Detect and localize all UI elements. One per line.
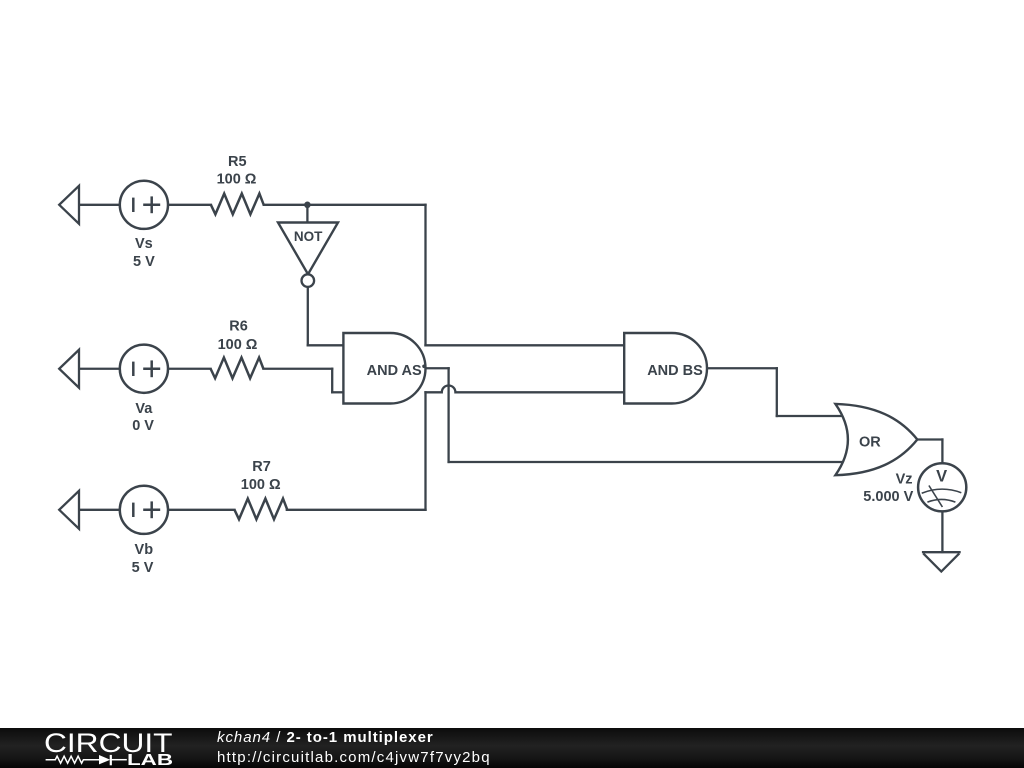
svg-text:100 Ω: 100 Ω [241, 477, 281, 493]
input flag Vb [59, 491, 79, 529]
svg-text:NOT: NOT [294, 229, 323, 244]
wire Vb: antenna to source [79, 509, 120, 511]
wire jog down [331, 369, 333, 393]
wire jog to AND AS bottom input [332, 391, 344, 393]
voltage source Va [120, 345, 168, 393]
wire AND AS output [426, 367, 449, 369]
svg-text:kchan4 / 2- to-1 multiplexer: kchan4 / 2- to-1 multiplexer [217, 729, 434, 746]
wire R6 to jog [263, 368, 332, 370]
svg-text:Vz: Vz [896, 471, 913, 487]
wire NOT output bubble down [307, 287, 309, 346]
svg-text:5.000 V: 5.000 V [863, 489, 913, 505]
svg-text:R7: R7 [252, 459, 271, 475]
wire voltmeter to ground [941, 511, 943, 552]
wire Vb up to AND BS input level [424, 392, 426, 510]
wire Va: source to R6 [168, 368, 211, 370]
wire AND BS output to OR top input [777, 415, 843, 417]
ground [922, 552, 961, 571]
wire Vb to AND BS bottom input with hop [426, 386, 626, 393]
voltage source Vb [120, 486, 168, 534]
voltage source Vs [120, 181, 168, 229]
wire Vs: source to R5 [168, 204, 211, 206]
svg-text:Vb: Vb [135, 542, 154, 558]
svg-text:5 V: 5 V [133, 254, 155, 270]
wire Vs: antenna to source [79, 204, 120, 206]
OR gate [835, 404, 917, 475]
wire vertical S down to AND BS input level [424, 205, 426, 345]
svg-text:V: V [936, 468, 947, 486]
svg-text:AND AS: AND AS [367, 363, 422, 379]
wire R7 to corner [287, 509, 426, 511]
wire AND BS output [707, 367, 777, 369]
resistor R5 [211, 194, 264, 215]
footer bar [0, 728, 1024, 768]
svg-text:100 Ω: 100 Ω [217, 172, 257, 188]
svg-text:5 V: 5 V [132, 560, 154, 576]
svg-text:http://circuitlab.com/c4jvw7f7: http://circuitlab.com/c4jvw7f7vy2bq [217, 749, 491, 766]
wire Va: antenna to source [79, 368, 120, 370]
voltmeter Vz [918, 463, 966, 511]
wire Vb: source to R7 [168, 509, 235, 511]
resistor R6 [211, 358, 264, 379]
NOT gate [278, 223, 338, 287]
input flag Vs [59, 186, 79, 224]
wire AND AS output to OR bottom input [449, 461, 843, 463]
input flag Va [59, 350, 79, 388]
wire OR output down to voltmeter [941, 440, 943, 465]
svg-text:100 Ω: 100 Ω [218, 337, 258, 353]
wire S to AND BS top input [426, 344, 626, 346]
wire NOT output to AND AS top input [308, 344, 344, 346]
wire junction to NOT gate input [306, 205, 308, 224]
svg-text:AND BS: AND BS [647, 363, 703, 379]
AND gate BS [624, 333, 707, 404]
svg-text:R5: R5 [228, 154, 247, 170]
wire R5 to corner (net S through junction) [264, 204, 426, 206]
logo zigzag diode glyph [46, 755, 127, 765]
wire OR output [917, 438, 942, 440]
svg-text:0 V: 0 V [132, 418, 154, 434]
svg-text:R6: R6 [229, 319, 248, 335]
svg-text:OR: OR [859, 434, 881, 450]
svg-text:LAB: LAB [127, 752, 173, 768]
node junction S [304, 202, 311, 209]
AND gate AS [343, 333, 425, 404]
wire AND BS output down [776, 368, 778, 416]
resistor R7 [235, 499, 288, 520]
svg-text:Vs: Vs [135, 236, 153, 252]
svg-text:Va: Va [135, 401, 153, 417]
wire AND AS output down [447, 368, 449, 462]
